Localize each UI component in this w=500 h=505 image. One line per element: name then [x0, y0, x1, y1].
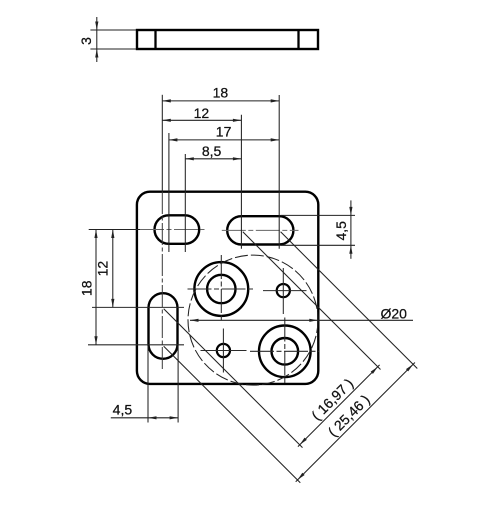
slot top-right — [227, 216, 293, 244]
dim 17 line — [169, 139, 279, 141]
dim 12 top line — [162, 119, 241, 121]
center cross hole1 horizontal — [188, 288, 256, 290]
center line slot top-left horizontal — [140, 229, 205, 231]
side view corner tangent line left — [154, 30, 156, 49]
dim 12 top arrow right — [233, 119, 242, 122]
hole2 inner circle — [272, 338, 299, 365]
dim 12 left line — [112, 230, 114, 308]
dim 4,5 right arrow top — [349, 207, 352, 216]
center line vertical slot top arc horizontal — [92, 306, 184, 308]
dim (25.46) dim line — [296, 363, 415, 482]
extension line left dims top (at slot row) — [89, 229, 140, 231]
small hole B — [217, 344, 230, 357]
dim 12 left arrow bottom — [111, 299, 114, 308]
center cross small hole A vertical — [282, 268, 284, 314]
hole2 counterbore outer circle — [259, 326, 311, 378]
dim diameter 20 arrow left — [190, 319, 199, 322]
dim diameter 20 dim line — [190, 319, 413, 321]
hole1 counterbore outer circle — [194, 262, 248, 316]
side view plate outline — [137, 30, 318, 49]
dim 8,5 arrow left — [185, 157, 194, 160]
dim 4,5 bottom extension left — [147, 346, 149, 423]
svg-text:17: 17 — [216, 124, 232, 140]
center cross small hole A horizontal — [263, 290, 307, 292]
extension line slot top-left left arc (dim 17) — [168, 133, 170, 252]
dim (16.97) arrow lower-left — [300, 438, 307, 445]
diagonal extension line C from vertical slot top arc — [164, 309, 303, 448]
svg-text:Ø20: Ø20 — [381, 306, 408, 322]
svg-text:3: 3 — [78, 37, 94, 45]
dim 4,5 right dim line — [350, 200, 352, 258]
small hole A — [277, 284, 290, 297]
dim 18 left arrow bottom — [94, 336, 97, 345]
diagonal extension line A from top-right slot left arc — [243, 232, 381, 370]
center cross hole2 vertical — [284, 318, 286, 386]
extension line slot top-right right arc (dim 18) — [278, 95, 280, 249]
extension line top dims left (vertical slot centerline above plate) — [161, 95, 163, 192]
center line slot top-right horizontal — [222, 229, 299, 231]
dim 4,5 bottom arrow left — [148, 416, 157, 419]
center cross hole2 horizontal — [250, 350, 319, 352]
center cross hole1 vertical — [220, 255, 222, 323]
svg-text:8,5: 8,5 — [202, 143, 222, 159]
center line vertical slot bottom arc horizontal — [88, 344, 184, 346]
dim 4,5 bottom arrow right — [170, 416, 179, 419]
hole1 inner circle — [207, 275, 235, 303]
dim 4,5 bottom dim line — [111, 417, 178, 419]
extension line slot top-left right arc (dim 8,5) — [184, 154, 186, 252]
slot left vertical — [149, 293, 178, 359]
dim (25.46) arrow lower-left — [298, 473, 305, 480]
dim 18 top arrow left — [162, 99, 171, 102]
plate outline main view — [137, 192, 318, 384]
dim 17 arrow left — [169, 138, 178, 141]
dim 17 arrow right — [271, 138, 280, 141]
dim 12 top arrow left — [162, 119, 171, 122]
dim 18 top line — [162, 100, 279, 102]
dimension 3 extension line bottom — [90, 48, 136, 50]
dim (25.46) arrow upper-right — [406, 364, 413, 371]
svg-text:12: 12 — [95, 261, 111, 277]
svg-text:4,5: 4,5 — [333, 221, 349, 241]
dim 4,5 right arrow bottom — [349, 245, 352, 254]
side view corner tangent line right — [297, 30, 299, 49]
dim 18 left arrow top — [94, 230, 97, 239]
dim 4,5 right extension bottom — [281, 244, 356, 246]
svg-text:4,5: 4,5 — [113, 401, 133, 417]
dim (16.97) arrow upper-right — [371, 367, 378, 374]
dim 12 left arrow top — [111, 230, 114, 239]
dimension 3 extension line top — [90, 29, 136, 31]
dim 4,5 bottom extension right — [177, 346, 179, 423]
dim 4,5 right extension top — [281, 214, 356, 216]
dim (16.97) dim line — [298, 365, 380, 447]
center line vertical slot — [161, 192, 163, 371]
dim 18 top arrow right — [271, 99, 280, 102]
center cross small hole B vertical — [222, 329, 224, 373]
dimension 3 arrow bottom — [95, 49, 98, 58]
slot top-left — [155, 215, 200, 244]
center cross small hole B horizontal — [201, 350, 247, 352]
dim 18 left line — [95, 230, 97, 345]
svg-text:18: 18 — [213, 85, 229, 101]
dimension 3 dim line — [96, 17, 98, 62]
dim 8,5 arrow right — [233, 157, 242, 160]
extension line slot top-right left arc (dim 12) — [240, 115, 242, 249]
svg-text:18: 18 — [78, 280, 94, 296]
dim 8,5 line — [185, 158, 241, 160]
svg-text:12: 12 — [194, 105, 210, 121]
dashed circle diameter 20 — [188, 255, 318, 385]
dim diameter 20 arrow right — [309, 319, 318, 322]
diagonal extension line B from top-right slot right arc — [281, 232, 418, 369]
dimension 3 arrow top — [95, 22, 98, 31]
diagonal extension line D from vertical slot bottom arc — [164, 346, 301, 483]
